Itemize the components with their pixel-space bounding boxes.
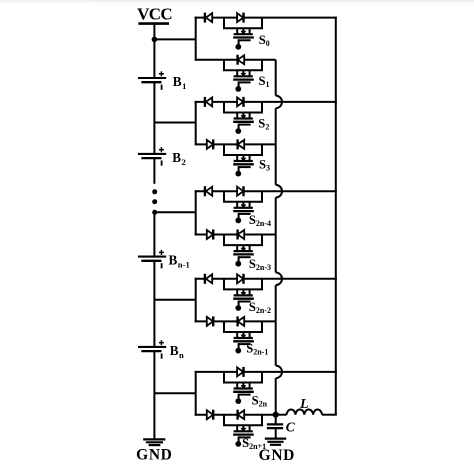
svg-text:GND: GND [259,447,295,464]
body diode of S2 [237,97,243,106]
wire tap to pair S2n-4/S2n-3 [154,211,195,213]
series diode row S2 [206,97,212,106]
ground right [265,439,286,445]
wire junction to inductor [276,414,287,416]
series diode row S2n+1 [207,410,213,419]
wire left vertical pair S0/S1 [195,17,197,61]
wire odd bus segments [275,60,277,415]
mosfet S2n-4 [223,191,263,223]
body diode of S3 [238,140,245,149]
body diode of S2n [237,367,243,376]
ellipsis omitted cells [152,189,157,215]
battery B1 [138,71,166,90]
wire left vertical pair S2n-4/S2n-3 [195,190,197,235]
wire row S3 [195,143,276,145]
wire row S2n-3 [195,234,276,236]
wire left vertical pair S2/S3 [195,101,197,145]
body diode of S2n-3 [238,230,245,239]
wire junction to capacitor [275,415,277,425]
wire tap to pair S0/S1 [154,38,195,40]
series diode row S3 [207,140,213,149]
wire capacitor to ground [275,428,277,438]
body diode of S2n-4 [237,187,243,196]
wire hop over row y=101.9 [276,96,282,109]
wire hop over row y=191.2 [276,185,282,198]
battery Bn [138,340,166,359]
series diode row S2n-1 [207,317,213,326]
wire left vertical pair S2n/S2n+1 [195,371,197,416]
wire row S1 [195,59,276,61]
wire row S2 [195,101,337,103]
wire row S2n-2 [195,278,337,280]
wire row S2n [195,371,337,373]
body diode of S1 [238,55,245,64]
mosfet S2 [223,102,263,134]
node filter junction [273,412,279,418]
wire bus VCC to B1 [153,39,155,78]
series diode row S2n-4 [206,187,212,196]
body diode of S0 [237,13,243,22]
wire row S2n+1 [195,414,276,416]
wire tap to pair S2n-2/S2n-1 [154,299,195,301]
series diode row S2n-3 [207,230,213,239]
wire bus Bn to ground [153,351,155,439]
mosfet S0 [223,18,263,50]
wire left vertical pair S2n-2/S2n-1 [195,278,197,323]
mosfet S2n+1 [223,415,263,447]
wire bus to Bn-1 [153,212,155,256]
wire row S2n-4 [195,190,337,192]
mosfet S2n-3 [223,235,263,267]
battery Bn-1 [138,250,166,269]
svg-text:VCC: VCC [137,5,172,24]
battery B2 [138,147,166,166]
wire bus Bn-1 to Bn [153,261,155,347]
mosfet S1 [223,60,263,92]
wire row S2n-1 [195,320,276,322]
wire hop over row y=278.8 [276,273,282,286]
node VCC junction [152,37,158,43]
mosfet S3 [223,144,263,176]
wire right bus to inductor [322,414,337,416]
svg-text:L: L [299,397,309,412]
wire bus below B2 [153,158,155,184]
ground left [143,439,165,445]
wire right even bus [335,17,337,415]
svg-text:C: C [286,419,296,434]
svg-text:GND: GND [136,447,172,464]
body diode of S2n-2 [237,274,243,283]
series diode row S0 [206,13,212,22]
mosfet S2n-2 [223,279,263,311]
capacitor C [267,424,283,428]
body diode of S2n+1 [238,410,245,419]
wire tap to pair S2n/S2n+1 [154,392,195,394]
mosfet S2n [223,372,263,404]
mosfet S2n-1 [223,321,263,353]
series diode row S2n-2 [206,274,212,283]
body diode of S2n-1 [238,317,245,326]
wire bus B1 to B2 [153,82,155,154]
wire tap to pair S2/S3 [154,122,195,124]
wire row S0 [195,17,337,19]
wire hop over row y=371.9 [276,366,282,379]
inductor L [287,410,322,415]
wire VCC stem [153,24,155,40]
